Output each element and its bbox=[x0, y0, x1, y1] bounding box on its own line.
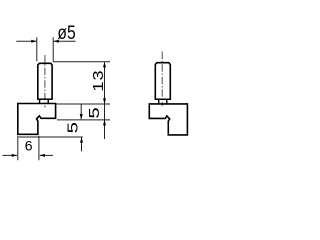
svg-text:13: 13 bbox=[90, 69, 106, 91]
neck left view bbox=[39, 100, 41, 104]
extension line step bottom (y=119.7) bbox=[57, 119, 110, 121]
arrow up below step ext bbox=[103, 120, 106, 125]
pin bottom edge right view bbox=[155, 98, 171, 100]
dimension 6: left leader and arrow bbox=[3, 154, 17, 156]
extension line block top (y=104) bbox=[56, 103, 110, 105]
neck right view bbox=[158, 100, 160, 104]
dimension 6: right leader and arrow bbox=[40, 154, 53, 156]
block outline right view bbox=[149, 104, 187, 135]
svg-text:6: 6 bbox=[25, 138, 33, 154]
extension line block bottom (y=137) bbox=[19, 136, 83, 138]
center line left pin bbox=[44, 55, 46, 108]
arrow down at block top ext bbox=[103, 98, 106, 103]
dimension line lower 5 (x=81.5) with up arrow bbox=[81, 137, 83, 151]
pin outline left view bbox=[38, 63, 52, 99]
pin outline right view bbox=[155, 63, 170, 99]
dimension ø5: left leader and arrow bbox=[16, 40, 36, 42]
svg-text:5: 5 bbox=[86, 107, 102, 119]
dimension line column x=104.5 (13 and lower 5) bbox=[104, 62, 106, 139]
center line right pin bbox=[161, 52, 163, 107]
block outline left view bbox=[18, 104, 56, 135]
arrow up at pin top ext bbox=[103, 62, 106, 67]
dimension ø5: right leader and arrow bbox=[54, 40, 76, 42]
dimension line upper 5 (x=81.2) with down arrow bbox=[80, 104, 82, 119]
dimension ø5: extension lines bbox=[36, 37, 38, 61]
svg-text:ø5: ø5 bbox=[57, 22, 75, 44]
pin bottom edge left view bbox=[37, 98, 53, 100]
dimension 6: extension lines bbox=[17, 136, 19, 160]
extension line pin top (y=61.8) bbox=[53, 61, 110, 63]
svg-text:5: 5 bbox=[65, 122, 81, 134]
